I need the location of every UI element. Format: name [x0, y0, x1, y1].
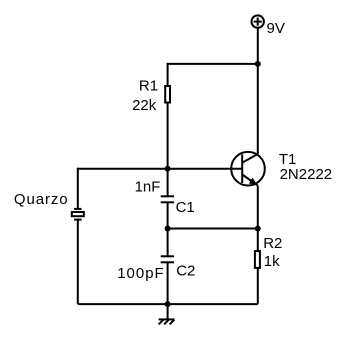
transistor T1 2N2222	[231, 152, 265, 186]
svg-text:22k: 22k	[132, 97, 157, 114]
svg-text:Quarzo: Quarzo	[14, 191, 69, 208]
capacitor C2	[161, 256, 174, 262]
svg-text:1k: 1k	[264, 253, 280, 270]
resistor R1	[165, 86, 170, 103]
power supply +9V symbol	[252, 15, 264, 27]
wire bottom rail	[78, 303, 258, 305]
wire R2 bottom	[257, 268, 259, 304]
svg-text:9V: 9V	[267, 20, 285, 37]
capacitor C1	[161, 196, 174, 202]
svg-text:R1: R1	[139, 78, 158, 95]
wire top rail	[167, 63, 258, 65]
resistor R2	[255, 251, 260, 268]
wire emitter	[257, 186, 259, 252]
wire C2 bottom	[167, 262, 169, 304]
junction top rail / collector	[255, 61, 261, 67]
crystal X1 Quarzo	[72, 209, 84, 220]
wire collector riser	[257, 64, 259, 154]
wire power to top rail	[257, 29, 259, 64]
wire R1 bottom to base node	[167, 103, 169, 169]
wire C2 top	[167, 229, 169, 257]
svg-text:C2: C2	[176, 263, 195, 280]
svg-text:2N2222: 2N2222	[280, 166, 333, 183]
wire crystal bottom	[77, 220, 79, 305]
wire crystal top	[77, 168, 79, 209]
wire base rail	[78, 168, 242, 170]
svg-text:100pF: 100pF	[117, 265, 165, 282]
svg-text:C1: C1	[176, 199, 195, 216]
wire R1 top	[167, 63, 169, 86]
ground symbol	[159, 304, 175, 324]
wire C1 top	[167, 169, 169, 197]
junction emitter node	[255, 226, 261, 232]
junction base node	[165, 166, 171, 172]
junction ground node	[165, 301, 171, 307]
svg-text:R2: R2	[263, 235, 282, 252]
wire middle rail to emitter branch	[168, 228, 258, 230]
junction C1 bottom node	[165, 226, 171, 232]
wire C1 bottom	[167, 202, 169, 228]
svg-text:1nF: 1nF	[135, 178, 161, 195]
